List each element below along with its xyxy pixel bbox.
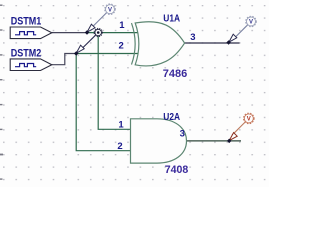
DSTM1 stimulus symbol [10,27,52,39]
left edge tick marks [0,5,3,180]
DSTM2 stimulus symbol [10,59,52,71]
wire AND output [187,140,242,142]
wire vertical to AND pin1 [98,33,130,130]
XOR gate U1A (7486) [132,22,185,66]
wire vertical to AND pin2 [76,54,130,151]
voltage marker V1 (top left, on DSTM1 wire) [85,4,116,35]
svg-text:U1A: U1A [163,14,180,25]
wire XOR output [185,42,240,44]
svg-text:1: 1 [118,120,124,131]
wire W1 DSTM1 to XOR pin1 [52,32,87,34]
AND gate U2A (7408) [131,119,187,163]
svg-text:U2A: U2A [163,112,180,123]
svg-text:7486: 7486 [163,68,188,80]
svg-text:2: 2 [119,41,124,52]
svg-text:DSTM1: DSTM1 [11,16,42,28]
svg-text:V: V [247,117,251,123]
svg-text:1: 1 [119,20,125,31]
svg-text:DSTM2: DSTM2 [11,48,42,60]
svg-text:7408: 7408 [165,164,189,176]
wire W2 DSTM2 to XOR pin2 (jog) [52,54,76,65]
voltage marker V4 (AND output, red) [227,113,254,143]
svg-text:3: 3 [180,128,185,139]
svg-text:V: V [249,20,253,26]
voltage marker V3 (XOR output) [226,16,256,45]
voltage marker V2 (on DSTM2 net junction) [74,28,102,55]
svg-text:3: 3 [190,32,195,43]
svg-text:V: V [108,7,112,13]
svg-text:2: 2 [117,141,122,152]
